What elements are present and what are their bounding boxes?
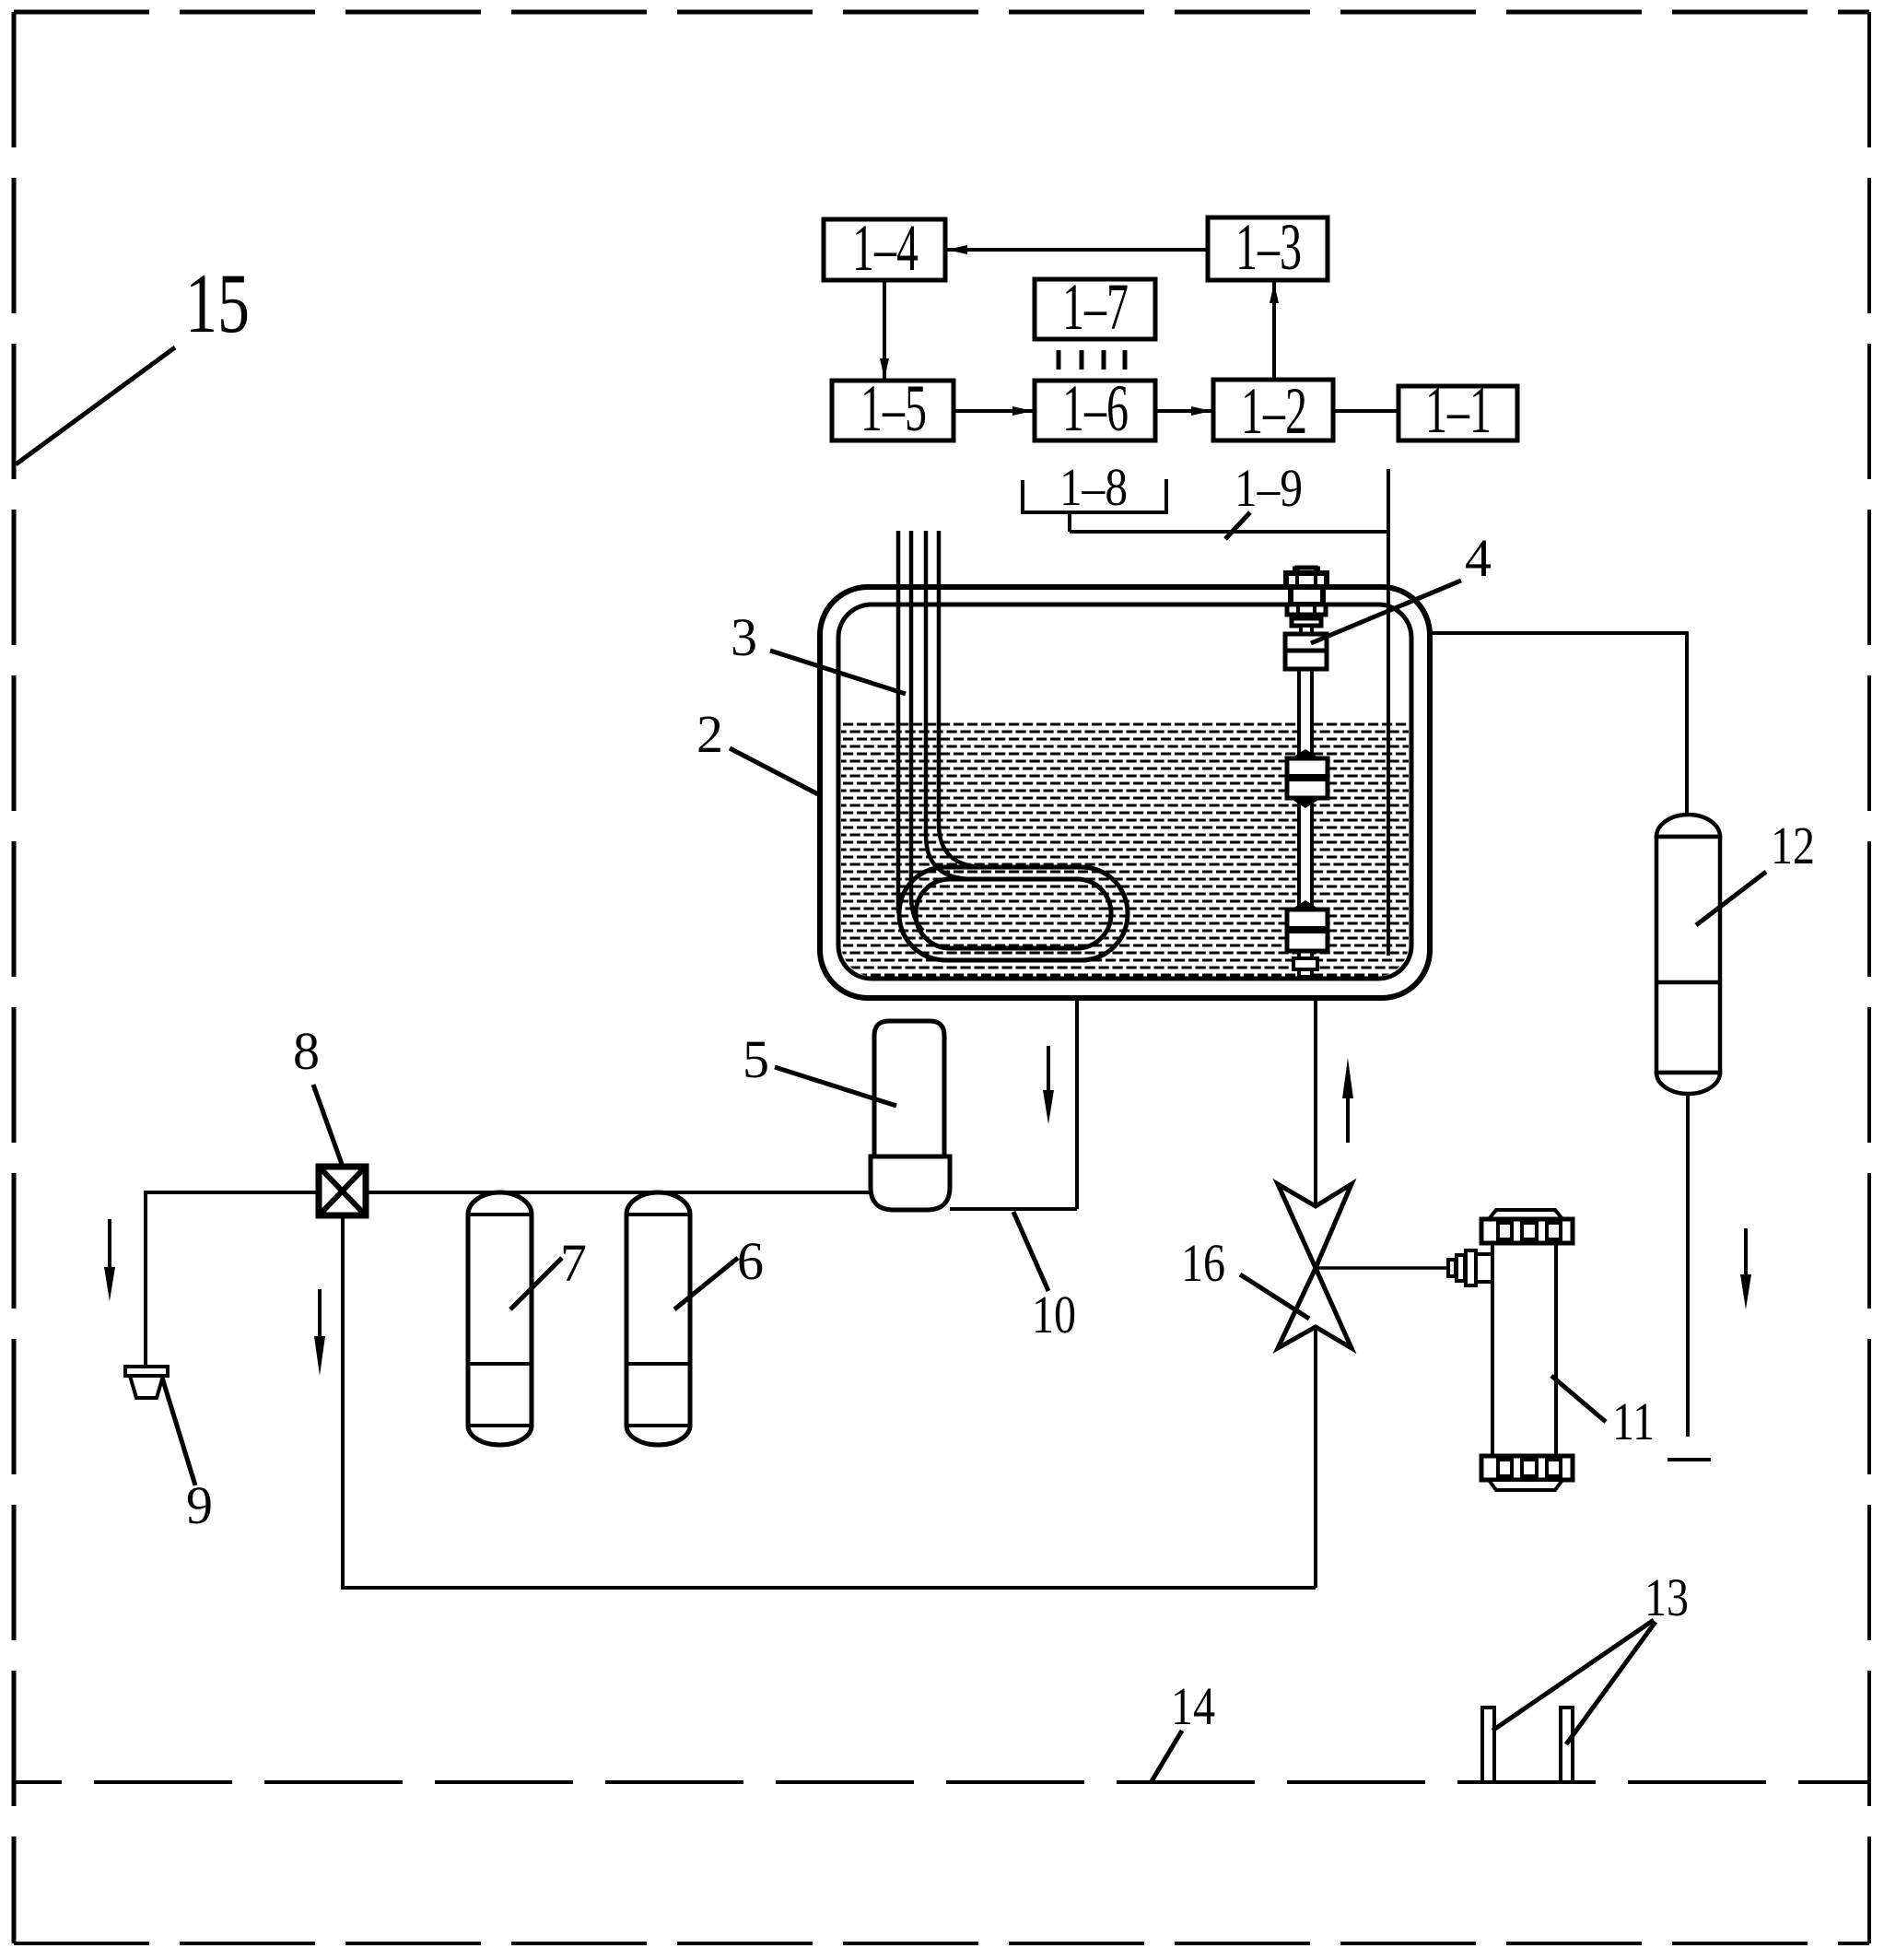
tank 2 outer shell bbox=[820, 587, 1430, 998]
support post 13a bbox=[1482, 1708, 1494, 1782]
label 11 bbox=[1551, 1376, 1655, 1451]
label 9 bbox=[162, 1378, 213, 1535]
svg-text:16: 16 bbox=[1181, 1233, 1225, 1293]
svg-text:1–3: 1–3 bbox=[1235, 210, 1302, 284]
label 16 bbox=[1181, 1233, 1309, 1319]
svg-text:1–6: 1–6 bbox=[1062, 371, 1129, 445]
svg-text:5: 5 bbox=[743, 1029, 769, 1089]
liquid hatch inside tank bbox=[841, 720, 1409, 977]
svg-text:12: 12 bbox=[1771, 816, 1815, 875]
wire 1-2 to 1-3 with arrow bbox=[1270, 280, 1279, 380]
pump 5 canister bbox=[874, 1021, 944, 1159]
flow arrow down (right side) bbox=[1740, 1228, 1751, 1309]
support post 13b bbox=[1561, 1708, 1573, 1782]
dashed enclosure border 15 (top) bbox=[14, 10, 1869, 15]
svg-text:2: 2 bbox=[696, 704, 723, 764]
pipe tank bottom to valve 16 bbox=[1314, 998, 1317, 1206]
ground line 14 bbox=[14, 1780, 1869, 1784]
wire tank to condenser 12 bbox=[1430, 633, 1687, 815]
dashed enclosure border 15 (right) bbox=[1867, 12, 1871, 1943]
svg-text:7: 7 bbox=[560, 1233, 587, 1293]
svg-text:1–7: 1–7 bbox=[1062, 270, 1129, 344]
valve 16 bbox=[1278, 1184, 1352, 1348]
label 10 bbox=[1013, 1212, 1076, 1344]
dashed enclosure border 15 (bottom) bbox=[14, 1942, 1869, 1945]
pipe tank bottom to pump (down) bbox=[1075, 998, 1079, 1209]
label 8 bbox=[293, 1021, 343, 1167]
pipe pump outlet horizontal bbox=[950, 1207, 1077, 1211]
svg-text:1–5: 1–5 bbox=[860, 371, 927, 445]
pipe valve 8 to drain (left elbow) bbox=[146, 1192, 319, 1367]
module 11 top cap bbox=[1481, 1210, 1573, 1243]
label 5 bbox=[743, 1029, 896, 1106]
flow arrow up (into tank) bbox=[1342, 1058, 1353, 1143]
hose fitting bbox=[1448, 1250, 1492, 1285]
label 1-9 bbox=[1225, 458, 1303, 539]
return pipe bottom run bbox=[341, 1586, 1316, 1590]
label 12 bbox=[1696, 816, 1815, 925]
box 1-7 bbox=[1035, 270, 1155, 344]
svg-text:14: 14 bbox=[1171, 1676, 1215, 1736]
box 1-3 bbox=[1208, 210, 1328, 284]
box 1-4 bbox=[824, 211, 945, 285]
svg-text:1–4: 1–4 bbox=[852, 211, 919, 285]
box 1-1 bbox=[1398, 373, 1517, 447]
svg-text:13: 13 bbox=[1644, 1567, 1689, 1627]
heater coil outer loop bbox=[899, 867, 1128, 960]
open end mark below condenser bbox=[1668, 1458, 1711, 1461]
flow arrow down (drain line) bbox=[104, 1219, 115, 1301]
svg-text:15: 15 bbox=[185, 256, 250, 350]
label 4 bbox=[1311, 528, 1492, 643]
pipe valve 8 down to return line bbox=[341, 1215, 345, 1588]
wire 1-3 to 1-4 with arrow bbox=[945, 245, 1208, 254]
svg-text:9: 9 bbox=[186, 1475, 213, 1535]
box 1-5 bbox=[832, 371, 954, 445]
module 11 bottom cap bbox=[1481, 1456, 1573, 1490]
svg-text:1–2: 1–2 bbox=[1241, 374, 1307, 448]
wire valve 16 to membrane module 11 bbox=[1316, 1266, 1452, 1270]
label 3 bbox=[731, 607, 906, 694]
condenser 12 bbox=[1656, 815, 1720, 1094]
filter column 7 bbox=[468, 1192, 532, 1445]
heater tube 3 (right pair) bbox=[926, 531, 986, 879]
flow arrow down (below valve 8) bbox=[314, 1289, 325, 1376]
wire 1-4 to 1-5 with arrow bbox=[880, 280, 889, 381]
return pipe riser to valve 16 bbox=[1314, 1327, 1317, 1588]
box 1-2 bbox=[1213, 374, 1333, 448]
pump 5 base bbox=[871, 1156, 950, 1210]
bracket 1-8 bbox=[1023, 457, 1166, 517]
label 13 bbox=[1492, 1567, 1689, 1744]
svg-text:11: 11 bbox=[1612, 1391, 1655, 1451]
valve 8 bbox=[319, 1167, 366, 1215]
membrane module 11 body bbox=[1492, 1243, 1556, 1456]
svg-text:3: 3 bbox=[731, 607, 757, 667]
wire 1-8 bus bbox=[1070, 512, 1388, 532]
wire 1-2 to 1-1 bbox=[1333, 409, 1398, 413]
svg-text:8: 8 bbox=[293, 1021, 320, 1081]
label 2 bbox=[696, 704, 820, 795]
float level sensor 4 bbox=[1285, 568, 1328, 977]
svg-text:1–8: 1–8 bbox=[1059, 457, 1128, 517]
flow arrow down (tank to pump) bbox=[1043, 1046, 1054, 1124]
tank 2 inner shell bbox=[838, 604, 1411, 979]
svg-text:6: 6 bbox=[737, 1231, 764, 1291]
label 14 bbox=[1152, 1676, 1215, 1781]
wire 1-9 probe into tank bbox=[1387, 469, 1390, 956]
box 1-6 bbox=[1035, 371, 1155, 445]
svg-text:1–1: 1–1 bbox=[1425, 373, 1492, 447]
heater tube 3 (left pair) bbox=[898, 531, 923, 931]
pipe pump inlet from valve 8 bbox=[366, 1191, 871, 1194]
svg-text:10: 10 bbox=[1032, 1285, 1076, 1344]
dashed link 1-7 to 1-6 bbox=[1059, 350, 1125, 370]
label 7 bbox=[510, 1233, 587, 1309]
wire condenser 12 outlet bbox=[1686, 1094, 1690, 1437]
heater coil inner loop bbox=[916, 879, 1111, 948]
dashed enclosure border 15 (left) bbox=[12, 12, 17, 1943]
svg-text:4: 4 bbox=[1465, 528, 1492, 588]
wire 1-6 to 1-2 with arrow bbox=[1155, 406, 1213, 416]
label 15 bbox=[16, 256, 250, 464]
svg-text:1–9: 1–9 bbox=[1235, 458, 1303, 518]
drain funnel 9 bbox=[125, 1367, 168, 1398]
wire 1-5 to 1-6 with arrow bbox=[954, 406, 1035, 416]
label 6 bbox=[674, 1231, 764, 1309]
filter column 6 bbox=[626, 1192, 690, 1445]
